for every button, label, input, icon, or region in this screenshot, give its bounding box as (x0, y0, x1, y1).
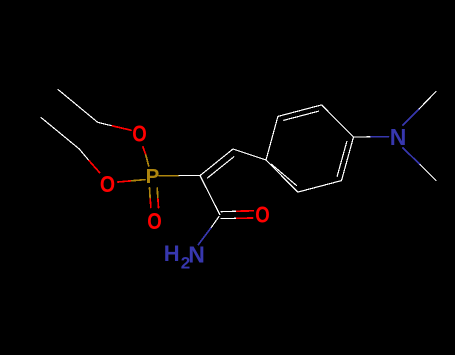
bond Nring-CH3 top nitrogen half (403, 109, 419, 125)
bond O2-P phosphorus half (132, 180, 146, 181)
ring bond V1-V2 (298, 181, 342, 193)
bond P=O3 double line right P half (156, 188, 159, 199)
bond Ccarbonyl-Namide carbon half (211, 217, 219, 229)
bond P=O3 double line left O half (149, 199, 152, 208)
bond C4'-Nring carbon half (354, 136, 372, 138)
bond C=O4 upper line oxygen half (237, 210, 254, 212)
ring bond V5-C1' (266, 116, 278, 160)
bond Nring-CH3 bottom nitrogen half (403, 148, 420, 165)
bond C2=C3 main line (200, 149, 233, 176)
bond CH3a-CH2a (ethyl 1 C-C) (58, 90, 98, 123)
svg-text:O: O (255, 201, 269, 227)
bond C4'-Nring nitrogen half (371, 136, 389, 138)
bond P=O3 double line right O half (157, 199, 160, 208)
bond O1-P oxygen half (143, 147, 146, 155)
ring bond V2-C4' (342, 137, 354, 181)
ring inner aromatic line V4-V5 (284, 111, 319, 120)
svg-text:O: O (132, 121, 147, 147)
bond P=O3 double line left P half (149, 188, 152, 199)
bond Ccarbonyl-Namide nitrogen half (199, 228, 211, 244)
svg-text:P: P (146, 165, 160, 188)
bond O2-P oxygen half (118, 181, 132, 182)
bond C2=C3 second line (207, 157, 233, 178)
bond C=O4 lower line carbon half (221, 217, 237, 219)
ring bond V4-V5 (278, 105, 322, 117)
bond CH2b-O2 carbon half (79, 149, 89, 161)
bond Nring-CH3 bottom carbon half (420, 165, 436, 181)
svg-text:O: O (147, 208, 162, 234)
bond C2-Ccarbonyl (200, 176, 220, 215)
bond CH2a-O1 carbon half (98, 122, 113, 126)
svg-text:N: N (390, 124, 407, 150)
bond CH2b-O2 oxygen half (89, 161, 100, 173)
ring inner aromatic line C1'-V1 (272, 164, 297, 185)
ring bond C1'-V1 (266, 160, 298, 192)
bond Nring-CH3 top carbon half (419, 92, 436, 110)
bond CH2a-O1 oxygen half (113, 126, 132, 130)
bond C3-C1' (233, 149, 266, 160)
bond O1-P phosphorus half (146, 155, 149, 166)
svg-text:O: O (100, 171, 115, 197)
bond C=O4 lower line oxygen half (237, 217, 253, 219)
bond P-C2 carbon half (179, 175, 200, 177)
svg-text:N: N (188, 241, 205, 267)
ring inner aromatic line V2-C4' (337, 142, 347, 177)
bond P-C2 phosphorus half (159, 175, 179, 177)
svg-text:H: H (164, 241, 180, 266)
bond C=O4 upper line carbon half (221, 210, 237, 213)
bond CH3b-CH2b (ethyl 2 C-C) (41, 118, 79, 150)
ring bond C4'-V4 (322, 105, 354, 137)
